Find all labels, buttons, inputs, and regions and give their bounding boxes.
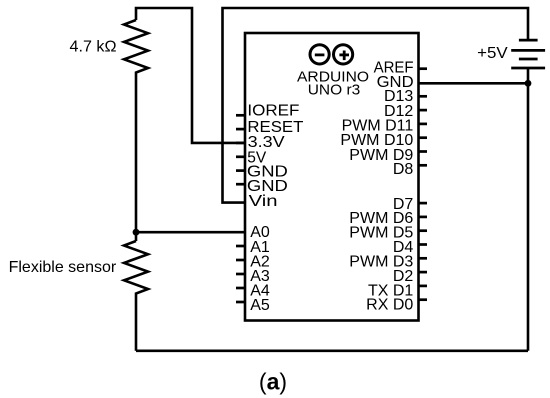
node A junction dot — [133, 229, 140, 236]
Arduino UNO body U1 — [245, 33, 419, 321]
wire node B to GND pin — [419, 82, 529, 85]
wire sensor bottom to bottom rail — [135, 296, 138, 351]
flexible sensor resistor — [124, 241, 148, 296]
pin TX D1 — [368, 282, 427, 299]
pin GND right — [377, 74, 414, 91]
svg-text:+5V: +5V — [477, 45, 508, 62]
Arduino logo right ring (plus) — [334, 45, 353, 64]
pin D8 — [393, 161, 427, 178]
pin 3.3V — [236, 134, 285, 151]
pin A4 — [236, 283, 270, 300]
pin A0 — [250, 224, 270, 241]
svg-text:UNO r3: UNO r3 — [308, 81, 361, 98]
pin PWM D11 — [342, 118, 427, 135]
pin IOREF — [236, 103, 300, 120]
pin A1 — [236, 239, 270, 256]
wire bottom rail — [136, 349, 528, 352]
Arduino logo left ring (minus) — [310, 45, 329, 64]
battery B1 +5V — [511, 40, 545, 68]
pin GND lower — [236, 178, 288, 195]
pin RESET — [236, 119, 304, 136]
pin A2 — [236, 254, 270, 271]
pin PWM D5 — [349, 225, 427, 242]
pin Vin — [249, 193, 278, 210]
wire node A to pin A0 — [136, 231, 245, 234]
pin AREF — [374, 60, 427, 77]
pin D12 — [384, 103, 427, 120]
pin PWM D9 — [349, 147, 427, 164]
pin PWM D6 — [349, 210, 427, 227]
wire resistor top to 3.3V pin — [136, 8, 245, 143]
resistor R1 4.7 kOhm — [124, 20, 148, 75]
svg-text:Vin: Vin — [249, 193, 278, 210]
svg-text:(a): (a) — [259, 369, 287, 395]
pin RX D0 — [366, 297, 427, 314]
pin 5V — [236, 149, 267, 166]
pin A3 — [236, 268, 270, 285]
svg-text:IOREF: IOREF — [247, 103, 299, 120]
wire battery plus to Vin pin — [223, 8, 529, 203]
svg-text:RX D0: RX D0 — [366, 297, 413, 314]
svg-text:4.7 kΩ: 4.7 kΩ — [70, 39, 117, 56]
pin D7 — [393, 196, 427, 213]
pin GND upper — [236, 164, 288, 181]
svg-text:D8: D8 — [393, 161, 414, 178]
pin D13 — [384, 88, 427, 105]
pin D4 — [393, 239, 427, 256]
svg-text:A5: A5 — [250, 297, 270, 314]
wire R1 bottom to junction A — [135, 75, 138, 241]
pin PWM D3 — [349, 253, 427, 270]
pin A5 — [236, 297, 270, 314]
svg-text:Flexible sensor: Flexible sensor — [9, 259, 117, 276]
wire right rail battery minus to bottom rail — [527, 68, 530, 351]
node B junction dot at battery minus — [525, 80, 532, 87]
pin PWM D10 — [340, 132, 427, 149]
pin D2 — [393, 268, 427, 285]
